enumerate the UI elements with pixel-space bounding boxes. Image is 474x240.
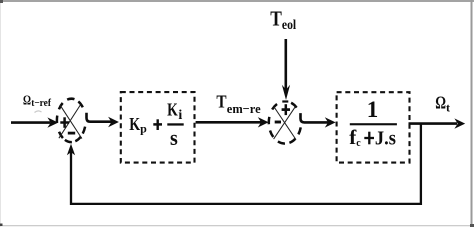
svg-text:K: K	[167, 99, 178, 119]
svg-text:c: c	[356, 138, 361, 149]
svg-text:K: K	[129, 114, 140, 134]
svg-text:1: 1	[367, 97, 379, 122]
svg-text:s: s	[170, 125, 178, 150]
svg-text:J.s: J.s	[375, 127, 396, 149]
svg-text:i: i	[178, 108, 182, 123]
svg-text:eol: eol	[282, 18, 296, 33]
svg-text:Ω: Ω	[435, 92, 446, 112]
svg-text:p: p	[140, 121, 147, 135]
svg-text:Ω: Ω	[23, 93, 31, 108]
svg-text:t: t	[446, 101, 450, 115]
svg-text:em−re: em−re	[227, 101, 261, 116]
svg-text:T: T	[270, 6, 282, 30]
svg-text:T: T	[216, 92, 226, 112]
svg-text:t−ref: t−ref	[31, 98, 51, 109]
